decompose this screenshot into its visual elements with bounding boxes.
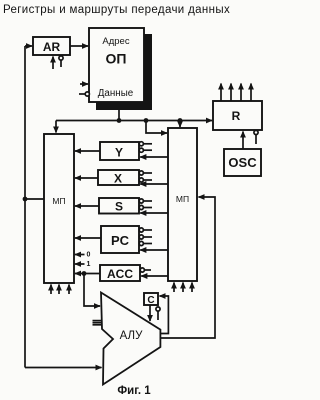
wire S bubble 1	[139, 199, 143, 203]
wire OP data down	[118, 110, 120, 121]
carry register C	[144, 293, 158, 305]
wire ALU flag stub 2	[93, 322, 103, 324]
wire bus elbow to MP2 left	[146, 121, 167, 134]
node bus/MP2-left	[144, 118, 149, 123]
wire MP2 to ACC	[141, 275, 168, 277]
svg-text:AR: AR	[43, 40, 61, 54]
wire bus down to MP1 top	[55, 121, 57, 133]
svg-text:S: S	[115, 200, 123, 214]
wire R out arrow 2	[230, 84, 232, 102]
wire C bubble stub	[156, 307, 160, 311]
svg-text:Данные: Данные	[98, 88, 134, 99]
wire PC bubble 3	[139, 241, 143, 245]
svg-text:1: 1	[87, 261, 91, 268]
wire X bubble 2	[139, 178, 143, 182]
register R	[213, 101, 262, 130]
wire AR enable bubble	[60, 60, 62, 67]
wire AR to OP	[70, 45, 88, 47]
wire R out arrow 1	[220, 84, 222, 102]
wire ALU out to C branch	[160, 296, 169, 334]
wire ALU flag stub 1	[93, 320, 103, 322]
wire data bus horizontal	[56, 120, 212, 122]
wire junction to MP1 left	[25, 198, 44, 200]
wire into AR left	[25, 45, 32, 47]
svg-text:X: X	[114, 172, 122, 186]
svg-text:OSC: OSC	[228, 155, 257, 170]
wire MP2 to PC	[140, 249, 168, 251]
svg-text:R: R	[232, 109, 241, 123]
svg-text:Фиг. 1: Фиг. 1	[117, 385, 151, 397]
svg-text:Адрес: Адрес	[102, 36, 129, 47]
wire OP write stub arrow	[80, 83, 88, 85]
wire ACC to MP1	[75, 273, 100, 275]
wire ALU flag stub 3	[93, 324, 103, 326]
wire left bus vertical	[24, 46, 26, 368]
wire PC to MP1	[75, 237, 101, 239]
wire ACC bubble	[140, 268, 144, 272]
wire Y bubble 2	[139, 148, 143, 152]
register Y	[100, 142, 139, 160]
wire S to MP1	[75, 205, 99, 207]
svg-text:Регистры и маршруты передачи д: Регистры и маршруты передачи данных	[3, 4, 230, 16]
wire OP read stub bubble	[79, 93, 85, 95]
wire MP2 to Y	[140, 156, 168, 158]
svg-text:ОП: ОП	[106, 51, 127, 67]
svg-text:ACC: ACC	[107, 267, 133, 281]
wire Y to MP1	[75, 150, 100, 152]
wire ACC branch to ALU top input	[84, 274, 100, 307]
wire X to MP1	[75, 177, 98, 179]
wire C to ALU	[149, 305, 151, 321]
wire AR clock arrow	[52, 57, 54, 70]
svg-text:PC: PC	[111, 233, 130, 248]
node left-bus/MP1 junction	[23, 197, 28, 202]
svg-text:Y: Y	[115, 146, 123, 160]
wire MP2 bottom arrow 3	[191, 283, 193, 293]
wire MP2 to S	[140, 212, 168, 214]
register PC	[101, 226, 139, 253]
wire MP1 bottom arrow 1	[50, 285, 52, 295]
svg-text:МП: МП	[176, 194, 189, 204]
wire PC bubble 2	[139, 235, 143, 239]
register ACC	[100, 265, 140, 281]
alu ALU	[101, 293, 160, 385]
node bus/MP2-top	[178, 118, 183, 123]
oscillator OSC	[224, 149, 261, 176]
multiplexer MP2	[168, 128, 197, 281]
svg-text:C: C	[147, 295, 154, 306]
svg-text:АЛУ: АЛУ	[120, 330, 143, 342]
wire OSC to R	[242, 132, 244, 150]
wire R bubble stub	[254, 130, 258, 134]
register AR	[33, 37, 70, 55]
wire MP2 bottom arrow 1	[173, 283, 175, 293]
wire MP2 bottom arrow 2	[182, 283, 184, 293]
wire MP2 to X	[140, 183, 168, 185]
wire X bubble 1	[139, 171, 143, 175]
wire S bubble 2	[139, 205, 143, 209]
wire bus down to MP2 top	[179, 121, 181, 128]
wire PC bubble 1	[139, 228, 143, 232]
node bus/OP	[117, 118, 122, 123]
wire ALU out feedback to MP2	[160, 197, 215, 338]
wire MP1 bottom arrow 2	[58, 285, 60, 295]
memory OP	[89, 28, 144, 102]
wire left bus to ALU bottom input	[25, 367, 102, 369]
wire R out arrow 3	[240, 84, 242, 102]
node ACC/ALU branch	[82, 271, 87, 276]
register X	[98, 170, 139, 185]
register S	[99, 198, 139, 214]
svg-text:МП: МП	[52, 196, 65, 206]
svg-text:0: 0	[87, 252, 91, 259]
wire Y bubble 1	[139, 142, 143, 146]
multiplexer MP1	[44, 134, 74, 283]
wire R out arrow 4	[250, 84, 252, 102]
memory OP shadow	[144, 34, 152, 110]
wire MP1 bottom arrow 3	[68, 285, 70, 295]
